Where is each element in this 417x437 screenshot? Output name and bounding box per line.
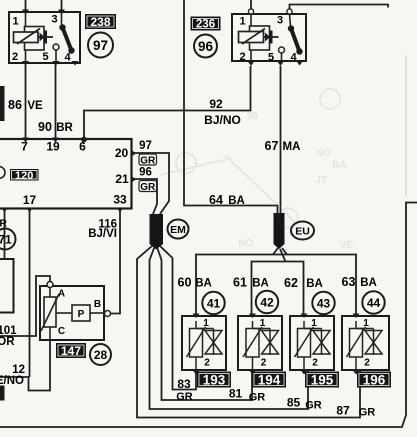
svg-text:41: 41 bbox=[207, 297, 221, 311]
svg-text:44: 44 bbox=[367, 296, 381, 310]
147 internals bbox=[41, 288, 105, 341]
svg-text:1: 1 bbox=[12, 16, 18, 28]
svg-text:BE/NO: BE/NO bbox=[0, 375, 24, 387]
label 195 bbox=[305, 372, 339, 388]
svg-text:GR: GR bbox=[140, 155, 156, 166]
svg-text:EU: EU bbox=[295, 225, 310, 237]
label 196 bbox=[357, 372, 391, 388]
wire label 83 GR bbox=[176, 377, 193, 403]
wire label 96 GR bbox=[139, 167, 157, 193]
wire label 90 BR bbox=[38, 120, 73, 134]
svg-text:193: 193 bbox=[203, 372, 226, 387]
svg-text:2: 2 bbox=[239, 51, 245, 63]
svg-text:81: 81 bbox=[229, 387, 243, 401]
svg-text:86: 86 bbox=[8, 98, 22, 112]
ECU pin6 junction dot bbox=[81, 137, 87, 143]
connector EU bbox=[274, 213, 285, 249]
wire label 85 GR bbox=[287, 396, 322, 412]
svg-text:61: 61 bbox=[233, 276, 247, 290]
svg-text:236: 236 bbox=[196, 19, 215, 31]
svg-text:71: 71 bbox=[0, 233, 12, 247]
wire label 12 BE/NO bbox=[0, 364, 25, 387]
svg-text:BA: BA bbox=[195, 278, 212, 290]
svg-text:4: 4 bbox=[290, 52, 297, 64]
wire 12 BE/NO to left edge and jog to C bbox=[0, 376, 30, 378]
svg-text:64: 64 bbox=[209, 193, 223, 207]
svg-text:83: 83 bbox=[177, 377, 191, 391]
faint scan fold line bbox=[405, 55, 407, 196]
svg-text:238: 238 bbox=[90, 15, 110, 29]
svg-text:GR: GR bbox=[305, 400, 322, 412]
relay unit 97 box bbox=[9, 12, 80, 63]
147 pin A circle bbox=[47, 282, 53, 288]
svg-text:1: 1 bbox=[239, 16, 245, 28]
svg-text:BJ/VI: BJ/VI bbox=[88, 228, 117, 240]
svg-text:2: 2 bbox=[204, 358, 210, 369]
svg-text:IT: IT bbox=[318, 175, 327, 186]
relay1 coil loop bbox=[25, 12, 45, 63]
wire label 64 BA bbox=[209, 193, 245, 207]
svg-text:120: 120 bbox=[15, 170, 33, 182]
svg-text:97: 97 bbox=[93, 38, 108, 53]
relay2 diode bbox=[264, 31, 279, 44]
147 pin letters bbox=[58, 289, 101, 338]
svg-text:A: A bbox=[58, 289, 65, 300]
wire relay2 pin1 top bbox=[250, 0, 252, 9]
wire relay1 pin3 top bbox=[61, 0, 63, 12]
label 120 bbox=[10, 169, 39, 182]
wire label 61 BA bbox=[233, 276, 269, 290]
svg-text:GR: GR bbox=[249, 392, 266, 404]
wire label 92 BJ/NO bbox=[204, 97, 241, 127]
svg-text:1: 1 bbox=[203, 318, 209, 329]
relay2 pin numbers bbox=[239, 15, 297, 64]
svg-text:VE: VE bbox=[27, 100, 43, 112]
svg-text:196: 196 bbox=[363, 372, 386, 387]
svg-text:62: 62 bbox=[284, 276, 298, 290]
component 71 box partial bbox=[0, 259, 14, 313]
svg-text:2: 2 bbox=[364, 358, 370, 369]
ECU partial circle at left edge bbox=[0, 167, 5, 179]
label 236 bbox=[191, 17, 221, 31]
circled 96 bbox=[194, 35, 217, 58]
wire 116 BJ/VI ECU pin33 to B bbox=[111, 211, 121, 314]
wire label 97 GR bbox=[139, 140, 157, 166]
svg-text:3: 3 bbox=[277, 15, 283, 27]
svg-text:2: 2 bbox=[12, 51, 18, 63]
svg-text:MA: MA bbox=[283, 141, 301, 153]
wire 64 BA from top to EU bbox=[184, 0, 278, 214]
svg-text:42: 42 bbox=[260, 296, 274, 310]
svg-text:87: 87 bbox=[336, 404, 350, 418]
ECU right pin notches bbox=[132, 150, 137, 183]
svg-text:5: 5 bbox=[42, 51, 48, 63]
svg-text:90: 90 bbox=[38, 120, 52, 134]
147 pin B circle bbox=[105, 311, 111, 317]
svg-text:1: 1 bbox=[311, 318, 317, 329]
wire ECU left pin down to box 71 bbox=[4, 211, 6, 259]
relay unit 96 box bbox=[232, 14, 306, 61]
injector 42 bbox=[238, 314, 282, 375]
svg-text:6: 6 bbox=[79, 140, 86, 154]
injector 41 bbox=[182, 314, 226, 375]
svg-text:BA: BA bbox=[306, 278, 323, 290]
svg-text:33: 33 bbox=[113, 193, 127, 207]
svg-text:147: 147 bbox=[61, 344, 81, 358]
svg-text:17: 17 bbox=[23, 193, 37, 207]
svg-text:5: 5 bbox=[268, 52, 274, 64]
faint bleedthrough marks bbox=[160, 89, 340, 228]
wire label 101 OR bbox=[0, 325, 17, 348]
relay2 coil loop bbox=[250, 14, 270, 61]
relay1 diode bbox=[38, 31, 53, 44]
wire rail 60/63 BA bbox=[196, 255, 356, 314]
circled 43 bbox=[312, 292, 334, 314]
svg-text:EM: EM bbox=[170, 224, 186, 236]
wire label 86 VE bbox=[8, 98, 43, 112]
svg-text:195: 195 bbox=[311, 372, 334, 387]
svg-text:BA: BA bbox=[332, 160, 346, 171]
label 147 bbox=[56, 343, 86, 358]
relay2 top pin circles bbox=[248, 9, 292, 14]
svg-text:20: 20 bbox=[115, 146, 129, 160]
connector EM bbox=[150, 214, 164, 250]
svg-text:VE: VE bbox=[340, 240, 354, 251]
svg-text:2: 2 bbox=[261, 358, 267, 369]
svg-text:67: 67 bbox=[265, 139, 279, 153]
relay2 pin notches bbox=[248, 61, 304, 66]
svg-text:2: 2 bbox=[312, 358, 318, 369]
svg-text:P: P bbox=[78, 309, 85, 320]
svg-text:GR: GR bbox=[140, 182, 156, 193]
wire 96 GR ECU pin21 to EM bbox=[133, 179, 157, 214]
component 147 box bbox=[40, 286, 104, 340]
ECU bottom pin notches bbox=[2, 208, 124, 213]
svg-text:4: 4 bbox=[64, 52, 71, 64]
svg-text:NO: NO bbox=[238, 238, 253, 249]
svg-text:BR: BR bbox=[56, 122, 73, 134]
wire 97 GR ECU pin20 to EM bbox=[133, 153, 169, 214]
circled 42 bbox=[256, 291, 278, 313]
svg-text:85: 85 bbox=[287, 396, 301, 410]
circled 97 bbox=[88, 33, 113, 58]
svg-text:43: 43 bbox=[317, 297, 331, 311]
wire 67 MA relay2 pin5 to EU bbox=[280, 66, 282, 214]
relay1 switch bbox=[59, 12, 74, 54]
svg-text:BA: BA bbox=[360, 277, 377, 289]
svg-text:NO: NO bbox=[316, 148, 331, 159]
label 193 bbox=[197, 372, 231, 388]
wire label 62 BA bbox=[284, 276, 323, 290]
svg-text:1: 1 bbox=[260, 318, 266, 329]
wire 92 BJ/NO relay2 pin2 to ECU pin6 bbox=[84, 66, 251, 139]
svg-text:63: 63 bbox=[342, 275, 356, 289]
circled EM bbox=[168, 220, 189, 239]
wire 90 BR relay1 pin5 to ECU pin19 bbox=[55, 63, 57, 139]
svg-text:1: 1 bbox=[363, 318, 369, 329]
svg-text:GR: GR bbox=[0, 218, 7, 230]
circled 71 partial bbox=[0, 229, 16, 250]
page edge mark bottom bbox=[0, 386, 5, 401]
circled EU bbox=[291, 222, 314, 240]
wire relay2 pin3 up right and stub down bbox=[290, 5, 389, 10]
svg-text:92: 92 bbox=[209, 97, 223, 111]
svg-text:BA: BA bbox=[228, 195, 245, 207]
svg-text:28: 28 bbox=[94, 348, 108, 362]
svg-text:7: 7 bbox=[21, 140, 28, 154]
relay2 pin5 contact bbox=[279, 47, 285, 61]
svg-text:BA: BA bbox=[252, 278, 269, 290]
relay2 switch bbox=[288, 14, 303, 55]
wire label 63 BA bbox=[342, 275, 377, 289]
svg-text:GR: GR bbox=[176, 391, 193, 403]
circled 41 bbox=[202, 292, 224, 314]
injector 44 bbox=[342, 314, 389, 375]
wire label 60 BA bbox=[178, 276, 212, 290]
relay1 coil bbox=[14, 29, 41, 45]
relay1 pin5 contact bbox=[53, 44, 59, 63]
svg-text:BJ/NO: BJ/NO bbox=[204, 113, 241, 127]
wire label 67 MA bbox=[265, 139, 301, 153]
svg-text:60: 60 bbox=[178, 276, 192, 290]
svg-text:19: 19 bbox=[46, 140, 60, 154]
injector 43 bbox=[290, 314, 334, 375]
page edge mark top bbox=[0, 86, 5, 121]
svg-text:GR: GR bbox=[359, 407, 376, 419]
wire label 116 BJ/VI bbox=[88, 219, 117, 241]
svg-text:97: 97 bbox=[139, 140, 152, 152]
svg-text:96: 96 bbox=[198, 39, 214, 54]
svg-text:96: 96 bbox=[139, 167, 152, 179]
label 194 bbox=[252, 372, 286, 388]
relay2 coil bbox=[239, 29, 266, 45]
svg-text:B: B bbox=[94, 299, 101, 310]
label 238 bbox=[85, 14, 116, 29]
ECU top pin notches bbox=[22, 138, 59, 143]
relay1 pin notches bbox=[22, 10, 79, 66]
wire EM fan diagonals bbox=[137, 246, 360, 418]
wire label 81 GR bbox=[229, 387, 265, 404]
svg-text:194: 194 bbox=[258, 372, 281, 387]
ECU pin numbers bbox=[21, 140, 129, 208]
wire 86 VE relay1 pin2 to ECU pin7 bbox=[25, 63, 27, 139]
wire page border bottom bbox=[0, 203, 417, 428]
relay1 pin numbers bbox=[12, 14, 72, 64]
wire relay1 pin1 top bbox=[25, 0, 27, 12]
svg-text:OR: OR bbox=[0, 336, 15, 348]
circled 28 bbox=[90, 344, 111, 365]
wire EU fan to injector rails bbox=[273, 248, 278, 255]
ECU box 120 bbox=[0, 139, 132, 209]
circled 44 bbox=[362, 291, 384, 313]
wire ECU pin17 down bbox=[29, 211, 31, 377]
svg-text:C: C bbox=[58, 326, 65, 337]
svg-text:21: 21 bbox=[115, 172, 129, 186]
wire label 87 GR bbox=[336, 404, 375, 419]
svg-text:3: 3 bbox=[51, 14, 57, 26]
svg-text:30: 30 bbox=[247, 111, 259, 122]
wire 101 OR to 147 pin A bbox=[0, 276, 50, 336]
